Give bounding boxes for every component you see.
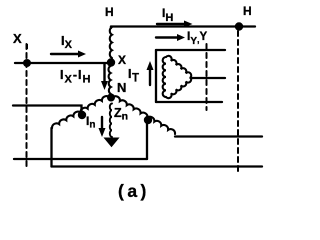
coil phase-b common winding (left slope)	[52, 96, 109, 128]
label node X	[118, 53, 126, 67]
wire delta output Y	[191, 77, 226, 79]
dashed line left X terminal	[26, 44, 28, 166]
wire left top bus X	[15, 62, 110, 64]
node X1 bus dot	[23, 59, 31, 67]
wire corner H to series coil	[110, 27, 112, 29]
coil phase-c common winding (right slope)	[113, 96, 175, 134]
wire tertiary frame top	[156, 49, 225, 51]
label current IY and terminal Y	[187, 29, 207, 47]
impedance Zn coil	[110, 104, 112, 137]
node H right dot	[235, 22, 243, 30]
arrow IT upward	[149, 68, 151, 85]
label impedance Zn	[114, 106, 128, 123]
wire lower-right phase	[175, 135, 262, 137]
wire bottom long	[52, 165, 263, 167]
label H right	[243, 4, 252, 18]
label X1 terminal	[13, 31, 22, 46]
delta tertiary winding left side	[163, 57, 166, 97]
dashed line middle Y terminal	[206, 44, 208, 110]
label current IH	[162, 6, 173, 24]
wire tertiary frame left vertical	[155, 50, 157, 102]
arrow IY	[156, 36, 179, 38]
label current IT	[128, 67, 140, 85]
label node N	[117, 80, 126, 95]
node N apex dot	[107, 94, 115, 102]
wire neutral left vertical	[50, 128, 52, 167]
dashed line right H terminal	[237, 31, 239, 172]
wire right riser to dot	[146, 121, 148, 159]
wire left bottom bus	[14, 158, 147, 160]
label H top	[105, 5, 114, 19]
arrow In downward	[101, 117, 103, 130]
ground arrow under Zn	[105, 138, 119, 147]
wire tertiary frame bottom	[156, 101, 222, 103]
arrow IX	[51, 53, 81, 55]
wire top-right bus H	[111, 25, 255, 27]
coil common winding X-N	[108, 66, 110, 94]
label current IX	[61, 33, 72, 51]
label caption (a)	[118, 181, 150, 202]
wire left middle bus	[13, 106, 82, 115]
arrow IH	[157, 23, 186, 25]
arrow IX-IH downward	[103, 64, 105, 83]
node on right slope winding	[144, 116, 152, 124]
coil series winding H-X	[110, 27, 112, 58]
delta tertiary winding top side	[166, 56, 191, 78]
label current In	[86, 114, 95, 131]
node X	[107, 58, 115, 66]
delta tertiary winding bottom side	[166, 78, 191, 99]
label current IX-IH	[60, 68, 91, 86]
node on left slope winding	[78, 111, 86, 119]
